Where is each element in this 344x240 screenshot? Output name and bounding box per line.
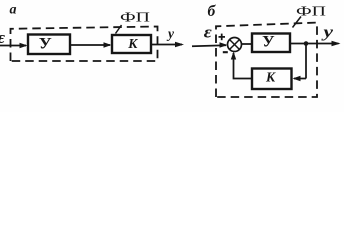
- block U (amplifier, part b): [252, 34, 290, 53]
- svg-text:ФП: ФП: [120, 11, 150, 26]
- svg-text:ε: ε: [204, 23, 212, 42]
- svg-text:а: а: [10, 3, 17, 18]
- svg-text:б: б: [208, 3, 217, 20]
- plus sign at summing junction: [219, 34, 226, 41]
- minus sign at summing junction: [223, 51, 228, 53]
- junction node dot on output wire: [304, 41, 309, 46]
- svg-text:ε: ε: [0, 28, 5, 47]
- svg-text:К: К: [127, 36, 138, 51]
- feedback wire: K to summing junction (left and up): [234, 53, 253, 79]
- svg-text:у: у: [321, 24, 334, 41]
- dashed boundary box (part a, functional converter FP): [11, 27, 158, 62]
- wire: summing junction to block U (part b): [242, 43, 252, 45]
- wire: U to K (part a): [70, 44, 110, 46]
- wire: K to output y (part a): [151, 44, 182, 46]
- svg-text:К: К: [265, 70, 276, 85]
- feedback wire: node down (part b): [305, 44, 307, 79]
- svg-text:у: у: [166, 26, 175, 41]
- block K (part a): [112, 35, 151, 53]
- svg-text:У: У: [262, 34, 275, 51]
- svg-text:У: У: [39, 36, 53, 53]
- dashed boundary box (part b, functional converter FP): [216, 23, 317, 97]
- wire: U to output y (part b): [290, 43, 339, 45]
- wire: input to summing junction (part b): [192, 45, 226, 46]
- block K (feedback, part b): [252, 69, 292, 90]
- summing junction (circle with cross): [228, 38, 242, 52]
- leader line to FP label (part b): [293, 17, 302, 28]
- feedback wire: into block K right side: [294, 78, 306, 80]
- wire: input to block U (part a): [0, 45, 26, 47]
- block U (amplifier, part a): [28, 35, 70, 55]
- leader line to FP label (part a): [116, 25, 122, 34]
